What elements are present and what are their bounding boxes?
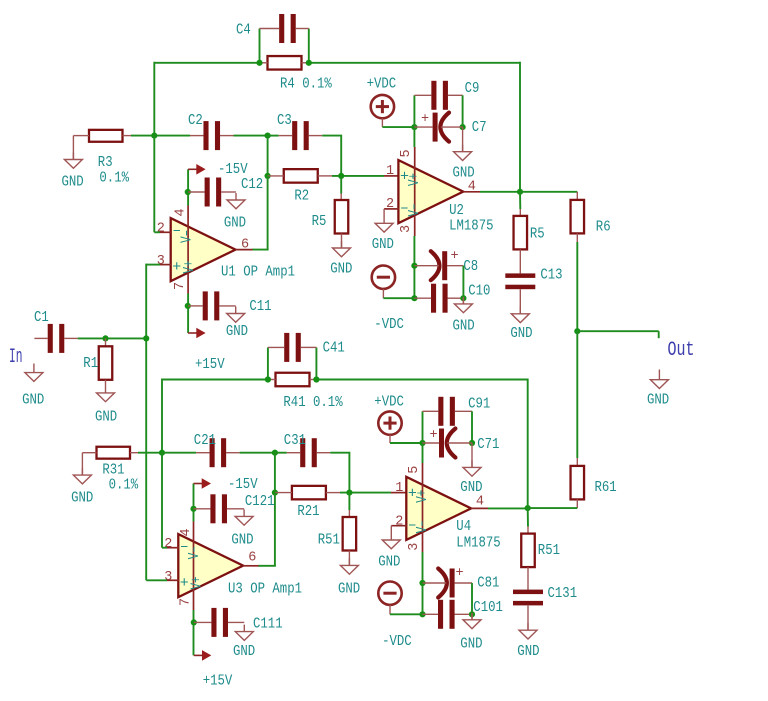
svg-text:+: + — [456, 566, 464, 581]
wire into U2 pin1 — [384, 175, 398, 177]
svg-text:C71: C71 — [477, 436, 499, 453]
svg-text:V–: V– — [186, 546, 203, 559]
wire bottom feedback left drop — [161, 379, 163, 453]
wire C41 left riser — [267, 347, 269, 379]
svg-text:+: + — [421, 112, 429, 127]
wire C91 right riser — [471, 411, 473, 443]
junction pin5 node bottom — [419, 440, 425, 446]
ground C121 — [235, 509, 253, 525]
wire output node to R51 right — [527, 508, 529, 526]
svg-text:V+: V+ — [406, 173, 423, 186]
power -VDC bottom — [378, 582, 401, 605]
svg-text:V+: V+ — [188, 577, 205, 590]
wire U2 output — [480, 191, 520, 193]
svg-text:7: 7 — [179, 598, 194, 606]
svg-text:V–: V– — [406, 204, 423, 217]
svg-text:GND: GND — [453, 164, 475, 181]
svg-text:C31: C31 — [284, 432, 306, 449]
svg-text:C121: C121 — [245, 493, 275, 510]
wire R21 to U4 pin1 — [340, 492, 391, 494]
svg-text:7: 7 — [173, 282, 188, 290]
svg-text:U3 OP Amp1: U3 OP Amp1 — [228, 581, 302, 598]
junction R1 top — [102, 335, 108, 341]
svg-text:5: 5 — [399, 149, 414, 157]
wire R21 left to U3 out — [274, 493, 276, 566]
ground C71 — [463, 460, 481, 476]
svg-text:R41 0.1%: R41 0.1% — [283, 394, 343, 411]
wire input net vertical — [145, 264, 147, 581]
wire node to C21 — [162, 452, 196, 454]
svg-text:R21: R21 — [297, 503, 319, 520]
capacitor C1 — [48, 324, 65, 353]
svg-text:U4: U4 — [456, 518, 471, 535]
wire U1 pin4 up — [187, 169, 189, 205]
U3 pin 2 stub — [167, 547, 179, 549]
wire pin5 node down bottom — [422, 443, 424, 463]
wire bottom feedback right drop — [527, 379, 529, 509]
svg-text:1: 1 — [395, 481, 403, 496]
junction C71 right — [469, 440, 475, 446]
wire U1 pin7 down — [187, 294, 189, 334]
junction R21 right — [346, 490, 352, 496]
resistor R4 — [268, 56, 302, 70]
capacitor C131 — [513, 590, 543, 606]
junction R2 left — [265, 173, 271, 179]
ground R31 — [73, 468, 91, 484]
wire node to C3 — [268, 135, 279, 137]
svg-text:GND: GND — [22, 392, 44, 409]
svg-text:In: In — [9, 346, 23, 369]
svg-text:U1 OP Amp1: U1 OP Amp1 — [221, 264, 295, 281]
wire node to C31 — [275, 452, 287, 454]
wire C9 left riser — [413, 95, 415, 127]
svg-text:V–: V– — [414, 520, 431, 533]
wire junction to R51 — [348, 493, 350, 510]
ground C11 — [227, 307, 245, 323]
capacitor C3 — [292, 121, 309, 150]
U4 pin 4 stub — [471, 507, 488, 509]
resistor R41 — [276, 373, 310, 387]
svg-text:R5: R5 — [312, 213, 327, 230]
junction R41-C41 right — [313, 376, 319, 382]
junction C101 right — [469, 611, 475, 617]
capacitor C41 — [284, 333, 301, 362]
svg-text:1: 1 — [386, 164, 394, 179]
wire top feedback left segment — [154, 62, 259, 64]
wire U1 pin2 horizontal — [154, 231, 160, 233]
wire C71 ground stem — [471, 443, 473, 467]
wire R6 to Out node — [576, 242, 578, 331]
svg-text:GND: GND — [460, 636, 482, 653]
svg-text:GND: GND — [510, 325, 532, 342]
capacitor C7 polarized — [433, 113, 449, 142]
capacitor C13 — [505, 273, 535, 289]
capacitor C101 — [438, 600, 455, 629]
ground C7 — [454, 145, 472, 161]
power arrow +15V bottom — [194, 650, 212, 661]
junction C11 — [185, 303, 191, 309]
wire U3 pin4 up — [193, 484, 195, 522]
wire +VDC to pin5 node bottom — [390, 442, 423, 444]
svg-text:C8: C8 — [463, 258, 478, 275]
svg-text:GND: GND — [330, 261, 352, 278]
svg-text:6: 6 — [248, 551, 256, 566]
resistor R21 — [292, 486, 326, 500]
svg-text:V–: V– — [178, 230, 195, 243]
wire output node to R6 — [520, 191, 577, 193]
ground In — [33, 364, 35, 373]
wire top feedback right segment — [309, 62, 520, 64]
svg-text:3: 3 — [399, 225, 414, 233]
svg-text:3: 3 — [164, 570, 172, 585]
junction C111 — [191, 619, 197, 625]
svg-text:C91: C91 — [468, 396, 490, 413]
svg-text:2: 2 — [164, 537, 172, 552]
wire U4 output — [488, 507, 528, 509]
junction R4-C4 right — [306, 60, 312, 66]
wire C31 output drop — [330, 453, 349, 493]
svg-text:GND: GND — [231, 532, 253, 549]
wire C8 right riser — [462, 266, 464, 299]
wire node drop to R2 left — [267, 136, 269, 176]
svg-text:GND: GND — [338, 581, 360, 598]
wire U1 pin3 horizontal — [146, 264, 160, 266]
wire R2 to U2 pin1 — [332, 175, 384, 177]
op-amp U2 — [398, 160, 463, 223]
ground C101 — [463, 613, 481, 629]
U3 pin 6 stub — [243, 565, 258, 567]
svg-text:C11: C11 — [249, 298, 271, 315]
wire -VDC to node bottom — [390, 613, 423, 615]
svg-text:C4: C4 — [236, 22, 251, 39]
wire node drop to R21 left — [274, 453, 276, 493]
junction C21-C31 node — [272, 450, 278, 456]
U3 pin 3 stub — [167, 579, 179, 581]
capacitor C4 — [279, 14, 296, 43]
svg-text:4: 4 — [468, 180, 476, 195]
svg-text:GND: GND — [647, 392, 669, 409]
op-amp U4 — [406, 477, 471, 540]
svg-text:0.1%: 0.1% — [109, 477, 139, 494]
wire junction to R5 — [340, 176, 342, 194]
resistor R6 — [571, 200, 585, 234]
wire C4 left riser — [259, 29, 261, 63]
svg-text:GND: GND — [226, 323, 248, 340]
U4 pin 2 stub — [391, 525, 407, 527]
svg-text:R5: R5 — [530, 226, 545, 243]
capacitor C9 — [431, 81, 448, 110]
svg-text:GND: GND — [62, 174, 84, 191]
svg-text:3: 3 — [407, 543, 422, 551]
junction U4 output node — [525, 505, 531, 511]
wire C9 right riser — [462, 95, 464, 127]
svg-text:GND: GND — [224, 215, 246, 232]
ground C111 — [235, 625, 253, 641]
svg-text:C101: C101 — [473, 599, 503, 616]
capacitor C71 polarized — [439, 429, 455, 458]
wire U3 pin2 horizontal — [162, 547, 167, 549]
ground U2 pin2 — [375, 216, 393, 232]
svg-text:4: 4 — [476, 495, 484, 510]
wire to Out — [577, 330, 658, 332]
svg-text:V+: V+ — [414, 490, 431, 503]
capacitor C10 — [431, 284, 448, 313]
wire -VDC bottom lead — [389, 605, 391, 614]
junction Out node — [574, 328, 580, 334]
junction C10 left — [411, 295, 417, 301]
wire U2 pin2 to ground — [383, 209, 385, 217]
svg-text:+VDC: +VDC — [374, 394, 404, 411]
resistor R1 — [99, 346, 113, 380]
ground R51 left — [340, 558, 358, 574]
svg-text:C111: C111 — [253, 616, 283, 633]
wire output node to R5 — [519, 192, 521, 209]
wire U3 pin7 down — [193, 610, 195, 655]
power arrow -15V bottom — [194, 478, 212, 489]
wire U3 pin3 horizontal — [146, 579, 167, 581]
capacitor C12 — [205, 178, 222, 207]
junction C8 left — [411, 263, 417, 269]
svg-text:C12: C12 — [241, 176, 263, 193]
wire C91 left riser — [422, 411, 424, 443]
svg-text:R3: R3 — [98, 154, 113, 171]
wire C2 to C3 node — [234, 135, 268, 137]
op-amp U1 — [171, 218, 236, 281]
resistor R51 left — [343, 517, 357, 551]
wire C3 output drop — [322, 136, 341, 176]
junction pin5 node — [411, 124, 417, 130]
svg-text:C13: C13 — [540, 267, 562, 284]
power +VDC top — [371, 95, 394, 118]
resistor R5 right — [514, 216, 528, 250]
svg-text:GND: GND — [372, 236, 394, 253]
capacitor C11 — [203, 291, 220, 320]
wire input node — [78, 337, 147, 339]
power -VDC top — [372, 266, 395, 289]
resistor R31 — [97, 447, 131, 459]
svg-text:LM1875: LM1875 — [456, 535, 500, 552]
svg-text:3: 3 — [157, 254, 165, 269]
junction C101 left — [419, 611, 425, 617]
U1 pin 2 stub — [160, 231, 172, 233]
wire C21 to C31 node — [240, 452, 275, 454]
wire R31 to node — [138, 452, 162, 454]
U2 pin 4 stub — [463, 191, 480, 193]
junction C12 — [185, 189, 191, 195]
wire +VDC lead — [381, 118, 383, 127]
wire Out node down to R61 — [576, 330, 578, 458]
wire into U4 pin1 — [391, 492, 406, 494]
svg-text:4: 4 — [179, 528, 194, 536]
wire feedback right drop to U2 output — [519, 62, 521, 192]
svg-text:+15V: +15V — [195, 356, 225, 373]
ground C131 — [519, 623, 537, 639]
ground R3 — [64, 153, 82, 169]
capacitor C81 polarized — [438, 569, 454, 598]
resistor R3 — [89, 130, 123, 142]
wire U4 pin3 down — [422, 552, 424, 614]
svg-text:R61: R61 — [595, 479, 617, 496]
wire -VDC lead — [382, 289, 384, 298]
U2 pin 5-3 through line — [414, 147, 416, 236]
svg-text:C131: C131 — [548, 585, 578, 602]
svg-text:+VDC: +VDC — [367, 76, 397, 93]
wire C81 right riser — [471, 583, 473, 614]
capacitor C2 — [203, 121, 220, 150]
svg-text:2: 2 — [386, 197, 394, 212]
svg-text:4: 4 — [174, 208, 189, 216]
junction R21 left — [272, 490, 278, 496]
wire U4 pin2 to ground — [390, 526, 392, 534]
wire node to U3 pin2 vertical — [161, 453, 163, 548]
junction R4-C4 left — [256, 60, 262, 66]
svg-text:2: 2 — [395, 515, 403, 530]
wire U3 pin6 horizontal — [258, 565, 276, 567]
junction C81 left — [419, 580, 425, 586]
junction R2 right — [338, 173, 344, 179]
resistor R2 — [284, 169, 318, 183]
wire C4 right riser — [308, 29, 310, 63]
svg-text:+15V: +15V — [203, 673, 233, 690]
ground Out — [658, 370, 660, 380]
wire +VDC to pin5 node — [382, 126, 414, 128]
junction C7 right — [460, 124, 466, 130]
svg-text:2: 2 — [157, 222, 165, 237]
wire +VDC bottom lead — [389, 435, 391, 443]
junction R41-C41 left — [265, 376, 271, 382]
svg-text:C2: C2 — [188, 112, 203, 129]
svg-text:GND: GND — [233, 643, 255, 660]
wire pin5 node down — [413, 127, 415, 147]
svg-text:0.1%: 0.1% — [99, 170, 129, 187]
wire node to C2 — [154, 135, 190, 137]
power +VDC bottom — [378, 411, 401, 434]
svg-text:LM1875: LM1875 — [449, 218, 493, 235]
wire node to U1 pin2 vertical — [153, 136, 155, 233]
junction R3-C2 node — [151, 133, 157, 139]
svg-text:6: 6 — [241, 238, 249, 253]
svg-text:C9: C9 — [465, 80, 480, 97]
svg-text:C41: C41 — [323, 340, 345, 357]
resistor R51 right — [521, 534, 535, 568]
svg-text:GND: GND — [453, 318, 475, 335]
junction R31-C21 node — [159, 450, 165, 456]
svg-text:GND: GND — [378, 554, 400, 571]
svg-text:R2: R2 — [294, 188, 309, 205]
svg-text:GND: GND — [95, 409, 117, 426]
capacitor C111 — [211, 608, 228, 637]
wire R2 left to U1 out — [267, 176, 269, 250]
svg-text:C81: C81 — [477, 575, 499, 592]
ground U4 pin2 — [382, 533, 400, 549]
ground C10 — [454, 297, 472, 313]
wire U1 pin6 horizontal — [252, 249, 269, 251]
junction input net — [143, 335, 149, 341]
wire Out end tick — [658, 331, 660, 338]
op-amp U3 — [178, 534, 243, 597]
ground R1 — [97, 386, 115, 402]
capacitor C91 — [438, 397, 455, 426]
capacitor C121 — [210, 494, 227, 523]
wire C10 ground stem — [462, 298, 464, 304]
ground R5 left — [333, 241, 351, 257]
wire feedback left drop — [153, 62, 155, 136]
svg-text:C21: C21 — [194, 432, 216, 449]
U1 pin 3 stub — [160, 264, 172, 266]
capacitor C8 polarized — [431, 251, 447, 280]
U4 pin 5-3 through line — [422, 463, 424, 552]
wire R3 to node — [131, 135, 154, 137]
capacitor C31 — [300, 438, 317, 467]
power arrow +15V top — [188, 328, 206, 339]
junction C121 — [190, 506, 196, 512]
svg-text:C10: C10 — [468, 283, 490, 300]
svg-text:C1: C1 — [34, 309, 49, 326]
wire C7 ground stem — [462, 127, 464, 152]
ground C12 — [227, 193, 245, 209]
wire C41 right riser — [315, 347, 317, 379]
junction C10 right — [460, 295, 466, 301]
svg-text:+: + — [451, 249, 459, 264]
svg-text:-VDC: -VDC — [382, 633, 412, 650]
svg-text:GND: GND — [460, 479, 482, 496]
junction C2-C3 node — [265, 133, 271, 139]
svg-text:C3: C3 — [277, 112, 292, 129]
wire C13 ground stem — [519, 289, 521, 314]
resistor R5 left — [335, 200, 349, 234]
svg-text:R4 0.1%: R4 0.1% — [280, 76, 333, 93]
wire C101 ground stem — [471, 614, 473, 620]
svg-text:Out: Out — [668, 339, 695, 362]
U1 pin 6 stub — [236, 249, 253, 251]
svg-text:R51: R51 — [538, 542, 560, 559]
capacitor C21 — [210, 438, 227, 467]
svg-text:R6: R6 — [596, 219, 611, 236]
svg-text:GND: GND — [517, 643, 539, 660]
resistor R61 — [571, 466, 585, 500]
ground C13 — [511, 307, 529, 323]
wire C131 ground stem — [527, 605, 529, 630]
U1 pin 4-7 through line — [187, 206, 189, 294]
svg-text:+: + — [430, 428, 438, 443]
svg-text:R1: R1 — [83, 355, 98, 372]
svg-text:U2: U2 — [449, 202, 464, 219]
svg-text:R51: R51 — [318, 532, 340, 549]
wire U2 pin3 down — [413, 236, 415, 298]
svg-text:V+: V+ — [181, 261, 198, 274]
junction U2 output node — [517, 189, 523, 195]
wire bottom feedback left segment — [162, 379, 268, 381]
wire bottom feedback right segment — [316, 379, 527, 381]
svg-text:GND: GND — [71, 490, 93, 507]
wire R61 to U4 output node — [528, 507, 578, 509]
wire -VDC to node — [383, 297, 414, 299]
svg-text:-VDC: -VDC — [374, 316, 404, 333]
U3 pin 4-7 through line — [193, 522, 195, 611]
svg-text:C7: C7 — [472, 119, 487, 136]
power arrow -15V top — [188, 164, 206, 175]
U2 pin 2 stub — [384, 208, 399, 210]
svg-text:-15V: -15V — [228, 476, 258, 493]
svg-text:5: 5 — [407, 466, 422, 474]
